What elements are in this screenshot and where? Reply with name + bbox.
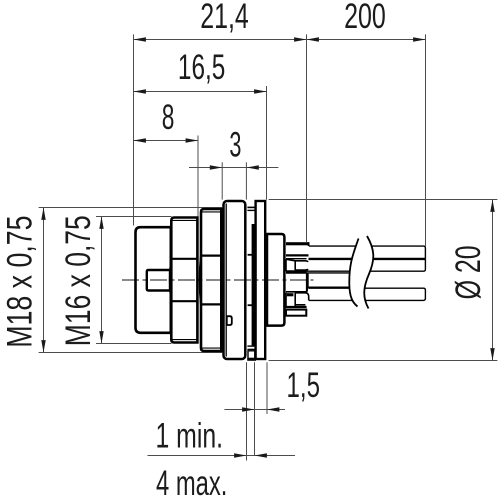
- crimp cup 2: [286, 293, 309, 307]
- contact line y255: [286, 254, 309, 256]
- M18 left edge bulge: [200, 256, 201, 305]
- contact line y307: [285, 306, 306, 308]
- dimension line 3: [189, 167, 278, 169]
- M16 left edge bulge: [170, 259, 171, 301]
- arrowheads: [41, 37, 494, 457]
- arrow M16 top: [99, 217, 103, 229]
- white wipe between break curves: [349, 236, 373, 309]
- wire B outline: [307, 259, 426, 271]
- svg-text:1,5: 1,5: [287, 367, 320, 406]
- wire C lines (end in break): [308, 272, 354, 274]
- thin extension and dimension lines: [39, 34, 498, 460]
- M16 dimension line: [101, 216, 103, 343]
- gasket black bar: [252, 224, 257, 346]
- svg-text:4 max.: 4 max.: [156, 464, 227, 500]
- dimension line 8: [134, 140, 199, 142]
- M18 dimension line: [43, 208, 45, 353]
- arrow 1min left (outside): [234, 453, 246, 457]
- gasket top double line: [247, 206, 254, 208]
- arrow Ø20 bottom: [490, 348, 494, 360]
- back plate: [256, 201, 266, 359]
- gasket bottom double line: [247, 348, 254, 350]
- M16 thread section: [171, 218, 197, 343]
- extension line x=266.6 (16,5): [266, 86, 268, 200]
- contact cluster: [285, 242, 309, 316]
- break curve right: [364, 236, 373, 309]
- svg-text:8: 8: [162, 98, 175, 137]
- svg-text:M18 x 0,75: M18 x 0,75: [0, 215, 39, 347]
- arrow 16,5 left: [134, 89, 146, 93]
- svg-text:1 min.: 1 min.: [156, 416, 224, 455]
- wire A/B boundary: [309, 258, 426, 260]
- M16 division lines: [171, 258, 197, 260]
- gasket bottom box: [248, 351, 255, 359]
- flange inner vertical line: [225, 204, 227, 357]
- arrow 8 right: [186, 138, 198, 142]
- svg-text:200: 200: [344, 0, 386, 36]
- bottom extension line x=246.6 (flange rear): [246, 362, 248, 460]
- gasket division crossings: [248, 254, 252, 256]
- top contact bar: [286, 242, 309, 245]
- bottom box: [286, 310, 306, 316]
- arrow 16,5 right: [254, 89, 266, 93]
- arrow M18 top: [41, 208, 45, 220]
- lower dark blob: [287, 293, 294, 296]
- break symbol: [349, 236, 373, 309]
- arrow 21,4 left: [134, 37, 146, 41]
- arrow 21,4 right: [294, 37, 306, 41]
- extension line x=246.4 (3 right): [245, 162, 247, 199]
- svg-text:16,5: 16,5: [178, 48, 225, 88]
- wire A outline: [309, 246, 425, 259]
- plate bottom edge extension under gasket: [247, 358, 256, 360]
- extension line x=425.6 (200 right): [425, 34, 427, 246]
- M18 thread section: [201, 209, 221, 351]
- centerline: [122, 279, 314, 281]
- arrow 1,5 right (outside): [267, 407, 279, 411]
- arrow 1,5 left (outside): [242, 407, 254, 411]
- middle contact box: [286, 273, 308, 292]
- contact pin: [147, 270, 170, 291]
- break curve left: [349, 239, 358, 307]
- extension line x=198 (8): [197, 136, 199, 218]
- contact line y271.4: [286, 270, 307, 272]
- flange notch tab: [227, 316, 232, 325]
- svg-text:3: 3: [229, 125, 241, 165]
- extension line left x=133.6: [133, 34, 135, 225]
- dimension line 21,4 and 200: [134, 39, 426, 41]
- Ø20 extension lines: [269, 199, 498, 201]
- svg-text:Ø 20: Ø 20: [448, 245, 488, 299]
- dimension line 1 min. / 4 max.: [148, 455, 296, 457]
- arrow Ø20 top: [490, 200, 494, 212]
- arrow M18 bottom: [41, 340, 45, 352]
- arrow 8 left: [134, 138, 146, 142]
- arrow 1min right (outside): [255, 453, 267, 457]
- M18 extension lines: [39, 207, 223, 209]
- dimension line 16,5: [134, 91, 267, 93]
- connector body: [136, 201, 285, 360]
- flange: [224, 201, 246, 359]
- extension line x=306.2 (21,4 / 200): [306, 34, 308, 242]
- bar to wire connector: [308, 242, 310, 246]
- M16 thread root lines: [172, 219, 198, 221]
- extension line x=222.2 (3 left): [221, 162, 223, 199]
- arrow 200 right: [413, 37, 425, 41]
- arrow 3 left (outside): [210, 165, 222, 169]
- crimp cup 1: [286, 259, 308, 271]
- M16 extension lines: [96, 216, 172, 218]
- contact line y258.7 left: [286, 258, 307, 260]
- M18 division lines: [201, 255, 221, 257]
- M18 thread root lines: [201, 211, 221, 213]
- wires: [307, 246, 426, 300]
- front shell: [136, 227, 171, 333]
- svg-text:M16 x 0,75: M16 x 0,75: [58, 215, 98, 346]
- Ø20 dimension line: [492, 200, 494, 361]
- insert: [267, 234, 284, 326]
- arrow 200 left: [307, 37, 319, 41]
- svg-text:21,4: 21,4: [200, 0, 249, 36]
- dimension line 1,5: [224, 409, 285, 411]
- wire D outline: [309, 288, 426, 300]
- bottom extension line x=266.9 (plate rear): [266, 362, 268, 414]
- arrow 3 right (outside): [246, 165, 258, 169]
- bottom extension line x=254.4 (plate front): [254, 362, 256, 455]
- arrow M16 bottom: [99, 331, 103, 343]
